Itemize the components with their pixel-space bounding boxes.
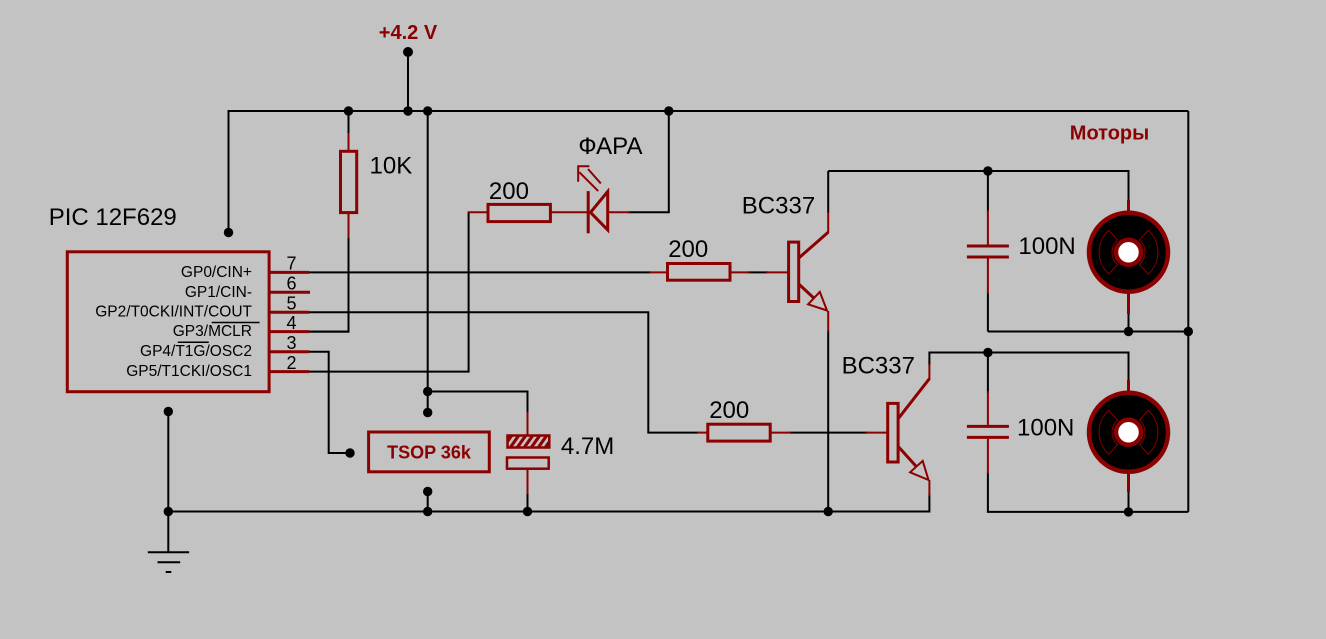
node ground rail / resonator junction: [523, 507, 532, 516]
svg-text:200: 200: [709, 397, 749, 424]
wire TSOP bottom link: [427, 492, 429, 512]
svg-text:BC337: BC337: [842, 353, 915, 380]
pin number 7: [286, 254, 296, 274]
wire motor1 top: [828, 171, 1128, 202]
node motor1 top / cap1 junction: [983, 166, 992, 175]
pin number 3: [286, 333, 296, 353]
node rail/10K junction: [344, 106, 353, 115]
wire motor1 bottom: [988, 312, 1188, 332]
label 200 R3: [668, 236, 708, 263]
svg-text:BC337: BC337: [742, 193, 815, 220]
svg-text:6: 6: [286, 274, 296, 294]
node TSOP GND terminal: [423, 487, 432, 496]
pin 4 GP3 stub: [269, 330, 309, 333]
IR receiver U2 TSOP 36k box: [369, 432, 490, 472]
ground: [148, 552, 189, 572]
wire resonator bottom to ground rail: [527, 492, 529, 512]
pin 3 GP4 stub: [269, 350, 309, 353]
pin label GP1/CIN-: [185, 284, 252, 301]
resistor R1 10K: [341, 133, 357, 238]
IC U1 PIC 12F629 body: [67, 252, 269, 392]
label 4.7M: [561, 433, 614, 460]
svg-text:GP3/MCLR: GP3/MCLR: [173, 323, 252, 340]
pin 7 GP0/CIN+ stub: [269, 271, 309, 274]
svg-text:ФАРА: ФАРА: [578, 133, 642, 160]
svg-text:GP5/T1CKI/OSC1: GP5/T1CKI/OSC1: [126, 363, 252, 380]
wire to resonator 4.7M top: [428, 392, 528, 415]
node +4.2V terminal: [403, 47, 413, 57]
svg-text:200: 200: [668, 236, 708, 263]
capacitor C1 100N: [967, 210, 1009, 294]
wire Q1 emitter riser: [827, 330, 829, 512]
wire Q2 collector riser: [929, 353, 1128, 382]
label BC337 Q2: [842, 353, 915, 380]
node TSOP Vs terminal: [423, 408, 432, 417]
wire chip ground drop: [167, 412, 169, 553]
wire cap2 bottom / motor2 bottom: [988, 472, 1188, 512]
resistor R3 200 Q1 base: [649, 264, 749, 281]
wire pin7 to base resistor Q1: [308, 271, 768, 273]
label 200 R4: [709, 397, 749, 424]
wire pin4 stub link: [308, 331, 349, 333]
label BC337 Q1: [742, 193, 815, 220]
label 200 R2: [489, 178, 529, 205]
label 10K: [370, 153, 413, 180]
label FARA: [578, 133, 642, 160]
svg-text:200: 200: [489, 178, 529, 205]
resonator X1 4.7M: [505, 412, 552, 494]
wire 10K branch to pin 4: [309, 111, 349, 332]
wire cap2 branch top: [987, 353, 989, 394]
pin number 5: [286, 294, 296, 314]
svg-text:PIC 12F629: PIC 12F629: [49, 204, 177, 231]
node chip GND terminal: [164, 407, 173, 416]
label PIC 12F629: [49, 204, 177, 231]
label TSOP 36k: [387, 443, 472, 463]
wire cap1 branch top: [987, 171, 989, 212]
svg-text:10K: 10K: [370, 153, 413, 180]
wire bottom ground rail: [168, 494, 929, 512]
wire Q1 collector riser: [827, 171, 829, 213]
svg-text:4.7M: 4.7M: [561, 433, 614, 460]
label 100N C1: [1018, 233, 1075, 260]
svg-text:+4.2 V: +4.2 V: [379, 22, 438, 44]
svg-text:5: 5: [286, 294, 296, 314]
label Motory: [1070, 122, 1149, 144]
node rail/TSOP riser junction: [423, 106, 432, 115]
wire right rail: [1187, 111, 1189, 512]
node Vdd pin terminal: [224, 228, 233, 237]
svg-text:2: 2: [286, 353, 296, 373]
svg-text:Моторы: Моторы: [1070, 122, 1149, 144]
svg-text:GP0/CIN+: GP0/CIN+: [181, 264, 252, 281]
transistor Q2 BC337: [866, 364, 929, 496]
svg-text:100N: 100N: [1018, 233, 1075, 260]
node TSOP riser / resonator branch: [423, 387, 432, 396]
pin 6 GP1/CIN- stub: [269, 291, 310, 294]
pin number 2: [286, 353, 296, 373]
pin label GP5/T1CKI/OSC1: [126, 363, 252, 380]
pin label GP3/MCLR: [173, 323, 260, 341]
svg-text:GP2/T0CKI/INT/COUT: GP2/T0CKI/INT/COUT: [95, 304, 252, 321]
capacitor C2 100N: [967, 391, 1009, 474]
pin label GP0/CIN+: [181, 264, 252, 281]
svg-text:7: 7: [286, 254, 296, 274]
svg-text:TSOP 36k: TSOP 36k: [387, 443, 472, 463]
svg-text:3: 3: [286, 333, 296, 353]
node ground rail left junction: [164, 507, 173, 516]
wire pin5 to base resistor Q2: [308, 312, 868, 432]
wire LED cathode to rail: [628, 111, 669, 212]
svg-text:100N: 100N: [1017, 414, 1074, 441]
pin label GP4/T1G/OSC2: [140, 342, 252, 360]
label 100N C2: [1017, 414, 1074, 441]
transistor Q1 BC337: [766, 212, 828, 332]
node motor1 bottom / right rail junction: [1184, 327, 1193, 336]
pin 5 GP2 stub: [269, 311, 309, 314]
motor M2: [1089, 380, 1168, 492]
wire pin2 to LED resistor: [308, 213, 469, 372]
pin label GP2/T0CKI/INT/COUT: [95, 304, 252, 321]
LED D1 FARA: [578, 166, 630, 233]
node motor2 top / cap2 junction: [983, 348, 992, 357]
wire pin3 to TSOP out: [308, 352, 350, 453]
label +4.2 V: [379, 22, 438, 44]
wire +4.2V tap: [407, 52, 409, 111]
pin number 6: [286, 274, 296, 294]
pin 2 GP5 stub: [269, 370, 309, 373]
svg-text:GP1/CIN-: GP1/CIN-: [185, 284, 252, 301]
node ground rail / Q1 emitter junction: [824, 507, 833, 516]
svg-text:GP4/T1G/OSC2: GP4/T1G/OSC2: [140, 343, 252, 360]
wire TSOP riser from rail: [427, 111, 429, 413]
wire cap1 bottom to motor1 bottom wire: [987, 292, 989, 332]
node rail/LED junction: [664, 106, 673, 115]
node motor2 bottom junction: [1124, 507, 1133, 516]
resistor R4 200 Q2 base: [697, 424, 791, 441]
motor M1: [1089, 200, 1168, 314]
pin number 4: [286, 313, 296, 333]
svg-text:4: 4: [286, 313, 296, 333]
node motor1 bottom junction: [1124, 327, 1133, 336]
wire top supply rail: [229, 111, 1189, 233]
node rail/+4.2V junction: [403, 106, 412, 115]
node TSOP OUT terminal: [345, 448, 354, 457]
resistor R2 200 LED series: [468, 204, 588, 221]
node ground rail / TSOP junction: [423, 507, 432, 516]
